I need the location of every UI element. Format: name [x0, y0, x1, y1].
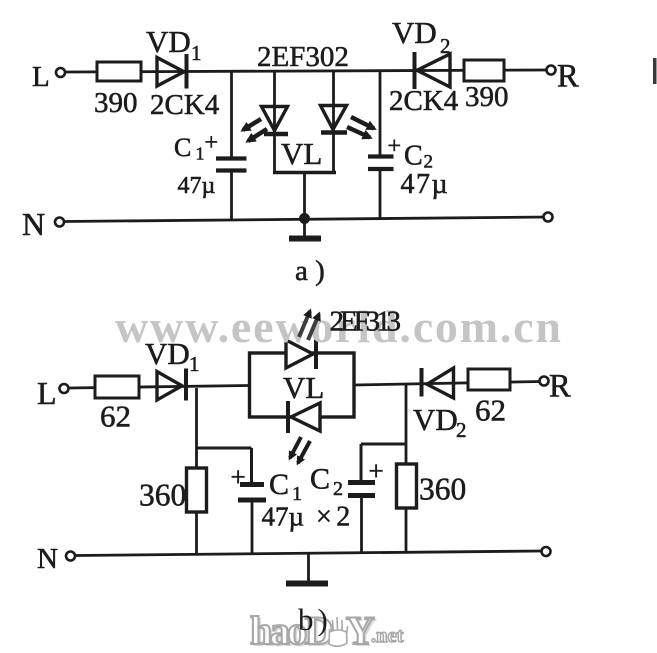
svg-text:47µ: 47µ	[178, 173, 216, 199]
svg-text:N: N	[37, 543, 58, 575]
svg-text:C: C	[404, 141, 423, 172]
svg-text:+: +	[205, 130, 219, 156]
svg-text:VL: VL	[281, 136, 322, 171]
svg-text:360: 360	[139, 478, 186, 513]
svg-text:C: C	[174, 133, 191, 162]
svg-text:390: 390	[465, 81, 509, 113]
svg-text:+: +	[388, 134, 402, 160]
svg-text:a ): a )	[295, 255, 325, 287]
svg-text:VD: VD	[392, 15, 437, 50]
svg-text:2EF302: 2EF302	[257, 41, 349, 73]
svg-text:L: L	[37, 375, 57, 411]
svg-text:2CK4: 2CK4	[389, 85, 459, 117]
svg-text:.net: .net	[371, 625, 404, 647]
svg-text:2: 2	[333, 478, 343, 500]
svg-text:2CK4: 2CK4	[150, 89, 220, 121]
svg-text:+: +	[369, 456, 384, 486]
svg-text:C: C	[310, 463, 330, 496]
svg-text:1: 1	[191, 41, 202, 65]
svg-text:2: 2	[440, 34, 451, 58]
svg-text:2: 2	[456, 418, 467, 442]
svg-text:N: N	[22, 206, 45, 242]
svg-text:VD: VD	[145, 336, 190, 371]
svg-text:2EF313: 2EF313	[330, 306, 402, 338]
svg-text:360: 360	[419, 472, 466, 507]
svg-text:L: L	[32, 61, 50, 93]
svg-text:C: C	[269, 468, 289, 501]
svg-text:1: 1	[196, 144, 205, 164]
svg-text:390: 390	[94, 87, 138, 119]
svg-text:47µ: 47µ	[401, 169, 450, 200]
svg-text:62: 62	[475, 393, 506, 428]
svg-text:R: R	[557, 59, 579, 95]
svg-text:1: 1	[189, 352, 200, 376]
svg-text:VD: VD	[146, 24, 191, 59]
svg-text:47µ: 47µ	[262, 502, 305, 532]
svg-text:62: 62	[100, 399, 131, 434]
svg-text:+: +	[231, 462, 246, 492]
svg-text:VL: VL	[283, 370, 324, 405]
svg-text:R: R	[549, 369, 571, 405]
svg-text:×2: ×2	[316, 502, 355, 533]
svg-text:VD: VD	[413, 402, 458, 437]
svg-text:b): b)	[298, 602, 332, 637]
